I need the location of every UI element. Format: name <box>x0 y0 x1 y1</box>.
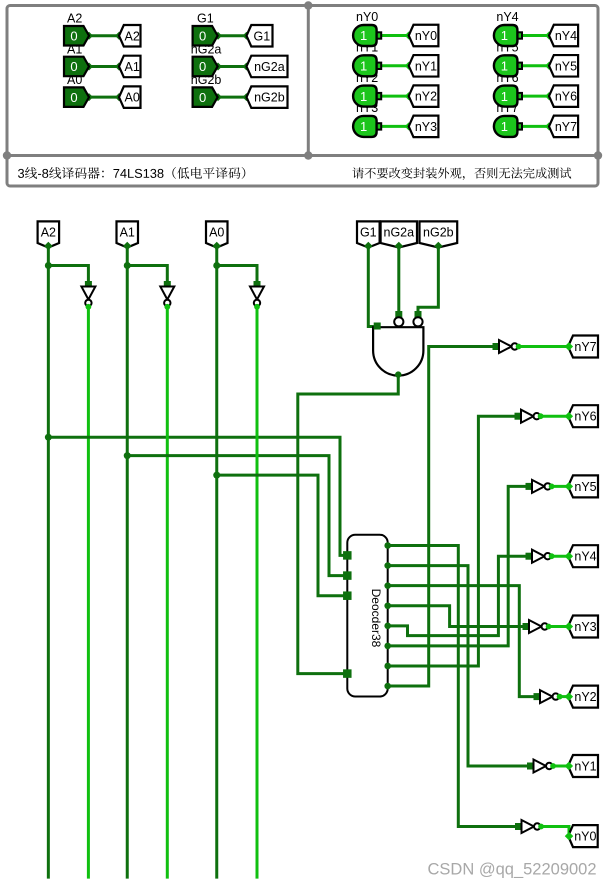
svg-text:1: 1 <box>501 89 508 104</box>
svg-text:nG2b: nG2b <box>423 226 454 240</box>
svg-text:nY4: nY4 <box>555 29 577 43</box>
svg-text:nY3: nY3 <box>574 620 596 634</box>
svg-text:0: 0 <box>70 28 77 43</box>
svg-text:0: 0 <box>199 90 206 105</box>
svg-text:nY6: nY6 <box>555 90 577 104</box>
svg-text:nY4: nY4 <box>496 10 518 24</box>
svg-text:nY1: nY1 <box>415 59 437 73</box>
svg-text:0: 0 <box>70 90 77 105</box>
svg-text:nY0: nY0 <box>356 10 378 24</box>
svg-text:nY0: nY0 <box>415 29 437 43</box>
svg-text:1: 1 <box>501 119 508 134</box>
svg-text:nY5: nY5 <box>555 59 577 73</box>
svg-text:nG2a: nG2a <box>384 226 415 240</box>
svg-text:A0: A0 <box>125 91 140 105</box>
svg-text:0: 0 <box>199 28 206 43</box>
svg-text:G1: G1 <box>254 29 271 43</box>
svg-text:1: 1 <box>360 28 367 43</box>
svg-text:nY7: nY7 <box>555 120 577 134</box>
svg-text:0: 0 <box>199 59 206 74</box>
svg-text:nY5: nY5 <box>574 480 596 494</box>
svg-text:1: 1 <box>360 89 367 104</box>
svg-text:nY2: nY2 <box>415 90 437 104</box>
svg-text:nG2b: nG2b <box>254 91 285 105</box>
svg-text:A2: A2 <box>67 12 82 26</box>
svg-text:nY3: nY3 <box>415 120 437 134</box>
svg-text:1: 1 <box>501 28 508 43</box>
svg-text:nY2: nY2 <box>574 690 596 704</box>
svg-text:nY6: nY6 <box>574 410 596 424</box>
svg-text:0: 0 <box>70 59 77 74</box>
svg-text:nY1: nY1 <box>574 760 596 774</box>
svg-text:CSDN @qq_52209002: CSDN @qq_52209002 <box>428 861 597 879</box>
svg-text:nG2a: nG2a <box>254 60 285 74</box>
svg-text:A1: A1 <box>120 226 135 240</box>
svg-text:1: 1 <box>501 59 508 74</box>
svg-text:1: 1 <box>360 59 367 74</box>
svg-text:nY7: nY7 <box>574 340 596 354</box>
svg-text:nY4: nY4 <box>574 550 596 564</box>
svg-text:A2: A2 <box>41 226 56 240</box>
svg-text:Deocder38: Deocder38 <box>369 589 383 648</box>
svg-text:A2: A2 <box>125 29 140 43</box>
svg-text:G1: G1 <box>360 226 377 240</box>
svg-text:A0: A0 <box>209 226 224 240</box>
svg-text:nY0: nY0 <box>574 830 596 844</box>
svg-text:1: 1 <box>360 119 367 134</box>
svg-text:A1: A1 <box>125 60 140 74</box>
svg-text:G1: G1 <box>197 12 214 26</box>
